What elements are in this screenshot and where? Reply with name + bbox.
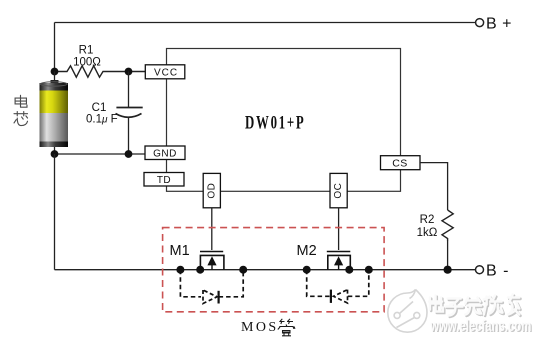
svg-text:MOS: MOS: [241, 320, 279, 335]
node: M2 source: [345, 266, 353, 274]
MOS enclosure (red dashed box): [163, 228, 385, 312]
node: M1 source: [196, 266, 204, 274]
svg-text:R1: R1: [79, 45, 94, 57]
wire: OC gate wire: [338, 208, 340, 250]
label: MOS tube: [241, 319, 295, 336]
wire: top rail to B+: [55, 22, 476, 24]
svg-text:0.1μ F: 0.1μ F: [86, 114, 118, 126]
wire: junction into battery top: [54, 72, 56, 85]
svg-text:B+: B+: [486, 16, 512, 33]
svg-text:B-: B-: [486, 263, 509, 280]
wire: left rail down to bottom rail: [54, 154, 56, 270]
op-amp U1 DW01+P body: [167, 49, 401, 192]
node: R2/bottom rail junction: [444, 266, 452, 274]
terminal B+: [476, 16, 512, 33]
diode D2 (M2 body diode, dashed): [307, 270, 369, 303]
svg-text:OD: OD: [206, 183, 217, 199]
node: M2 drain (body diode): [365, 266, 373, 274]
wire: R2 to bottom rail: [447, 241, 449, 270]
wire: battery top to top rail: [54, 23, 56, 72]
wire: bottom rail to B-: [55, 269, 476, 271]
node: battery- junction: [51, 150, 59, 158]
wire: CS to R2: [420, 163, 448, 210]
svg-text:GND: GND: [153, 149, 177, 160]
node: C1/GND junction: [125, 150, 133, 158]
node: battery+/R1 junction: [51, 68, 59, 76]
node: M1 drain (body diode): [239, 266, 247, 274]
svg-text:C1: C1: [92, 102, 107, 114]
svg-text:www.elecfans.com: www.elecfans.com: [430, 318, 532, 335]
label: 电芯 (cell): [14, 95, 28, 125]
pin VCC: [145, 65, 185, 79]
svg-text:OC: OC: [333, 183, 344, 199]
pin OC: [330, 173, 347, 207]
pin OD: [203, 173, 220, 207]
svg-text:CS: CS: [392, 158, 408, 170]
svg-text:VCC: VCC: [154, 68, 178, 79]
node: M2 left (body diode): [303, 266, 311, 274]
resistor R1: [55, 45, 149, 78]
svg-text:1kΩ: 1kΩ: [417, 227, 438, 239]
watermark logo (elecfans): [388, 290, 427, 333]
svg-text:M1: M1: [170, 243, 190, 259]
svg-text:M2: M2: [297, 243, 317, 259]
wire: OD gate wire: [211, 208, 213, 250]
resistor R2: [417, 210, 454, 241]
pin TD: [144, 173, 184, 187]
diode D1 (M1 body diode, dashed): [180, 270, 243, 304]
watermark text: brand: [429, 295, 519, 316]
svg-text:R2: R2: [420, 214, 435, 226]
wire: battery- to GND pin: [55, 153, 146, 155]
watermark text: url: [430, 318, 533, 336]
node: M1 left (body diode): [176, 266, 184, 274]
pin CS: [381, 156, 421, 170]
watermark text: brand shadow: [430, 296, 520, 317]
pin GND: [145, 146, 185, 160]
wire: battery bottom: [54, 147, 56, 154]
svg-text:TD: TD: [157, 175, 171, 186]
transistor M2: [297, 243, 351, 270]
svg-text:100Ω: 100Ω: [73, 57, 101, 69]
terminal B-: [476, 263, 509, 280]
capacitor C1: [86, 72, 143, 155]
svg-text:DW01+P: DW01+P: [245, 114, 306, 134]
battery cell: [40, 80, 69, 147]
transistor M1: [170, 243, 224, 270]
node: R1/C1/VCC junction: [125, 68, 133, 76]
